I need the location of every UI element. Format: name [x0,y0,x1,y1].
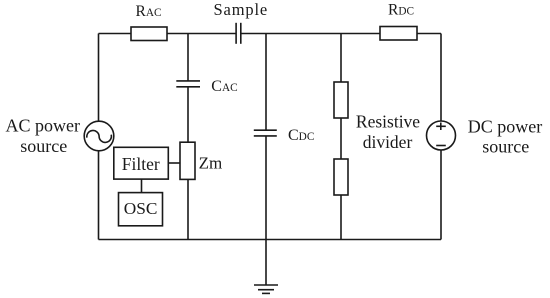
Filter box [114,147,169,179]
svg-text:AC power: AC power [6,115,81,135]
wire divider bottom [340,195,342,240]
impedance Zm box [180,142,195,179]
svg-text:CAC: CAC [211,78,237,95]
resistor RAC [131,27,167,41]
svg-text:Filter: Filter [122,154,160,174]
DC source circle U2 [427,121,456,150]
resistor divider lower box [334,159,348,195]
wire CAC to Zm [187,87,189,142]
ground bars [254,284,278,286]
svg-text:Zm: Zm [199,154,223,173]
OSC box [119,193,163,226]
wire Filter to OSC [141,179,143,193]
wire Zm to bottom rail [187,180,189,240]
DC plus sign [436,125,446,127]
AC sine symbol [87,130,112,142]
svg-text:RAC: RAC [136,3,162,20]
svg-text:source: source [20,136,67,156]
wire left rail upper [98,34,100,122]
wire top left segment [99,33,132,35]
svg-text:CDC: CDC [288,127,314,144]
wire left rail lower [98,151,100,240]
wire right rail lower [440,150,442,240]
svg-text:divider: divider [363,132,413,152]
wire node x188 top [187,34,189,81]
resistor divider upper box [334,82,348,118]
svg-text:Resistive: Resistive [356,112,420,132]
wire node x266 top [265,34,267,131]
svg-text:Sample: Sample [214,0,269,19]
capacitor CAC [176,80,200,82]
resistor RDC [380,27,417,41]
wire bottom rail [99,239,442,241]
svg-text:DC power: DC power [468,117,543,137]
capacitor CDC [254,129,277,131]
capacitor Sample (series, top wire) [235,23,237,44]
wire between divider resistors [340,118,342,159]
wire CDC to bottom rail [265,136,267,240]
wire RDC to right rail [417,33,441,35]
wire Sample to RDC [241,33,380,35]
wire Filter to Zm [168,162,180,164]
wire right rail upper [440,34,442,122]
wire RAC to Sample [167,33,236,35]
AC source circle U1 [84,121,114,151]
ground stem [265,240,267,286]
wire divider top [340,34,342,83]
DC minus sign [436,145,446,147]
svg-text:source: source [482,137,529,157]
svg-text:RDC: RDC [388,2,414,19]
svg-text:OSC: OSC [124,199,158,218]
